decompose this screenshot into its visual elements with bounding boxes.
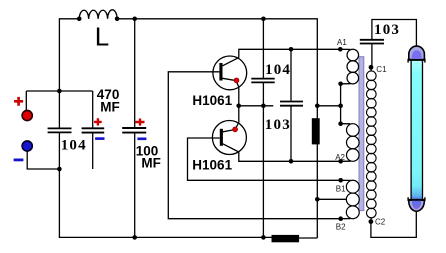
transformer primary winding A2 loops	[347, 124, 360, 162]
svg-text:B1: B1	[336, 185, 346, 194]
svg-text:104: 104	[265, 62, 291, 78]
node top rail cap104 branch	[261, 17, 266, 22]
wire Q2 base loop to B1	[188, 138, 341, 180]
transformer primary winding A2 section taps	[341, 124, 351, 162]
wire cap104 left vertical	[58, 91, 60, 169]
svg-text:MF: MF	[141, 156, 161, 171]
node inductor left	[77, 17, 82, 22]
svg-text:C2: C2	[375, 218, 386, 227]
node emitter rail cap104	[261, 104, 266, 109]
transformer primary winding B section taps	[341, 180, 351, 218]
resistor vertical bar	[312, 118, 320, 144]
node cap103 top feed	[289, 47, 294, 52]
node inductor right	[115, 17, 120, 22]
transformer primary winding A1 loops	[347, 49, 359, 84]
wire resistor column	[316, 105, 318, 238]
wire Q2 collector line to A2	[239, 152, 341, 161]
tube bottom cap	[408, 197, 426, 211]
node center tap feed	[315, 197, 320, 202]
transformer core	[359, 57, 364, 211]
capacitor 103 top plates	[360, 40, 384, 44]
node emitters junction	[236, 104, 241, 109]
battery negative terminal	[22, 141, 32, 151]
capacitor 100MF plates	[122, 128, 146, 133]
wire battery plus horizontal	[26, 90, 92, 92]
inductor L	[79, 10, 117, 19]
capacitor 103 mid plates	[280, 102, 303, 106]
node A2	[338, 159, 343, 164]
transformer secondary winding loops	[367, 71, 377, 218]
battery plus sign	[14, 97, 23, 106]
wire center tap feed	[317, 198, 346, 200]
cap 470MF minus sign	[95, 137, 104, 140]
wire bottom rail	[59, 169, 317, 238]
wire emitter rail left segment	[239, 105, 274, 107]
transformer primary winding A1 section taps	[340, 49, 350, 84]
wire 470MF bottom lead	[92, 133, 94, 169]
wire C2 to tube bottom	[371, 211, 416, 238]
svg-text:103: 103	[265, 117, 291, 133]
wire 100MF branch vertical	[134, 19, 136, 238]
wire plus terminal drop	[25, 91, 27, 111]
node cap103 bottom feed	[289, 159, 294, 164]
wire transformer primary column	[340, 84, 342, 124]
node emitter rail resistor	[315, 104, 320, 109]
node C1	[369, 65, 374, 70]
node B2	[338, 216, 343, 221]
node B1	[338, 178, 343, 183]
wire emitter rail right segment	[317, 105, 340, 107]
node bottom rail resistor	[261, 235, 266, 240]
svg-text:H1061: H1061	[192, 93, 232, 108]
svg-text:103: 103	[374, 22, 400, 38]
wire cap103 mid vertical	[290, 49, 292, 161]
wire 470MF top lead	[92, 91, 94, 128]
resistor horizontal bar	[272, 235, 300, 242]
tube top cap	[408, 46, 426, 63]
node emitter rail transformer	[338, 104, 343, 109]
svg-text:C1: C1	[376, 65, 387, 74]
node battery minus junction	[57, 167, 62, 172]
wire cap103 top bottom lead to C1	[371, 44, 373, 67]
transistor Q1	[213, 56, 247, 106]
svg-text:B2: B2	[336, 222, 346, 231]
wire top rail	[117, 19, 317, 106]
transformer primary winding B loops	[346, 180, 359, 219]
transistor Q2	[212, 106, 246, 155]
cap 470MF plus sign	[94, 118, 102, 125]
node winding A2 upper end	[338, 121, 343, 126]
svg-text:A2: A2	[335, 153, 345, 162]
node battery plus junction	[57, 89, 62, 94]
capacitor C 104 left plates	[48, 128, 72, 132]
battery minus sign	[14, 158, 24, 161]
wire cap104 mid vertical	[262, 19, 264, 238]
wire minus terminal to node	[27, 151, 59, 169]
node C2	[369, 219, 374, 224]
battery positive terminal	[22, 110, 32, 120]
svg-text:MF: MF	[100, 100, 120, 115]
svg-text:H1061: H1061	[192, 158, 232, 173]
wire Q1 base loop to B2	[168, 72, 340, 219]
node A1	[338, 47, 343, 52]
node bottom rail 100MF	[132, 235, 137, 240]
svg-text:104: 104	[61, 138, 87, 154]
capacitor 104 mid plates	[251, 79, 274, 83]
wire battery plus riser to top rail	[59, 19, 79, 91]
capacitor 470MF plates	[82, 128, 105, 132]
svg-text:L: L	[95, 21, 109, 51]
node winding A1 lower end	[338, 82, 343, 87]
cap 100MF minus sign	[137, 138, 146, 141]
svg-text:A1: A1	[337, 38, 347, 47]
node top rail 100MF branch	[132, 17, 137, 22]
cap 100MF plus sign	[136, 119, 145, 126]
wire cap103 top leads to tube	[372, 20, 417, 48]
wire Q1 collector line to A1	[239, 49, 340, 57]
transformer secondary winding end stubs	[370, 67, 372, 221]
